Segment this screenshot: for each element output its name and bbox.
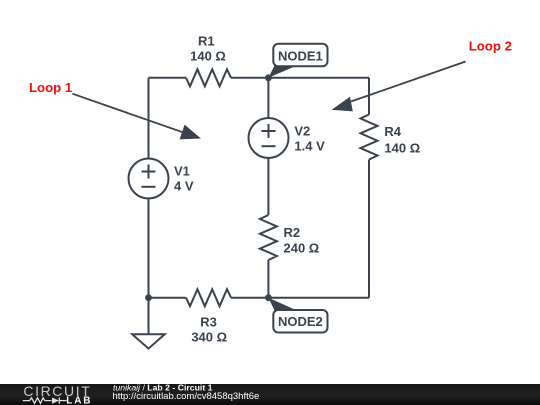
annotation Loop 1 arrow line: [72, 94, 184, 133]
V1 plus sign: [142, 165, 156, 179]
wire R2 bottom to NODE2: [267, 260, 269, 298]
svg-text:R2: R2: [284, 225, 301, 240]
svg-text:140 Ω: 140 Ω: [384, 141, 420, 156]
wire left vertical lower (V1 bottom to bottom-left junction): [148, 199, 150, 298]
footer bar: [0, 384, 540, 405]
wire NODE1 to V2 top: [267, 78, 269, 118]
annotation Loop 2 arrowhead: [332, 97, 353, 112]
svg-text:LAB: LAB: [66, 396, 92, 405]
wire R3 right to NODE2: [231, 297, 268, 299]
V1 minus sign: [142, 186, 156, 188]
wire bottom-left (junction to R3 left): [149, 297, 187, 299]
svg-text:140 Ω: 140 Ω: [190, 49, 226, 64]
V2 minus sign: [262, 145, 276, 147]
annotation Loop 1 arrowhead: [180, 125, 201, 140]
footer logo diode triangle: [52, 398, 59, 404]
wire left vertical upper (corner to V1 top): [148, 78, 150, 159]
annotation Loop 2 arrow line: [351, 62, 466, 102]
junction node dot at NODE2: [265, 294, 272, 301]
node NODE2 box: [273, 310, 327, 333]
svg-text:http://circuitlab.com/cv8458q3: http://circuitlab.com/cv8458q3hft6e: [113, 391, 260, 402]
svg-text:NODE1: NODE1: [278, 49, 323, 64]
svg-text:V1: V1: [174, 164, 190, 179]
wire V2 bottom to R2 top: [267, 158, 269, 215]
svg-text:R4: R4: [384, 124, 401, 139]
resistor R3: [186, 289, 231, 306]
wire top-left horizontal (corner to R1 left): [149, 77, 187, 79]
node NODE2 callout tail: [268, 298, 297, 311]
wire R1 right to NODE1: [231, 77, 268, 79]
svg-text:R3: R3: [200, 315, 217, 330]
voltage source V1 circle: [129, 159, 169, 199]
wire bottom-right (NODE2 to right corner): [268, 297, 369, 299]
svg-text:240 Ω: 240 Ω: [284, 241, 320, 256]
resistor R4: [361, 115, 378, 160]
svg-text:340 Ω: 340 Ω: [191, 330, 227, 345]
ground stem wire: [148, 298, 150, 335]
wire right vertical upper (corner to R4 top): [368, 78, 370, 115]
svg-text:V2: V2: [294, 123, 310, 138]
ground symbol: [132, 334, 165, 348]
voltage source V2 circle: [249, 118, 289, 158]
resistor R2: [260, 215, 277, 260]
junction node dot at NODE1: [265, 74, 272, 81]
node NODE1 callout tail: [268, 66, 297, 78]
svg-text:NODE2: NODE2: [278, 314, 323, 329]
svg-text:Loop 1: Loop 1: [29, 80, 72, 95]
svg-text:Loop 2: Loop 2: [469, 39, 512, 54]
wire top-right horizontal (NODE1 to right corner): [268, 77, 369, 79]
svg-text:4 V: 4 V: [174, 179, 194, 194]
svg-text:1.4 V: 1.4 V: [294, 139, 325, 154]
wire right vertical lower (R4 bottom to bottom-right corner): [368, 160, 370, 298]
svg-text:R1: R1: [198, 34, 215, 49]
junction node dot bottom-left: [145, 294, 152, 301]
V2 plus sign: [262, 124, 276, 138]
node NODE1 box: [273, 44, 327, 67]
resistor R1: [186, 69, 231, 86]
footer logo resistor-diode squiggle: [23, 398, 67, 404]
